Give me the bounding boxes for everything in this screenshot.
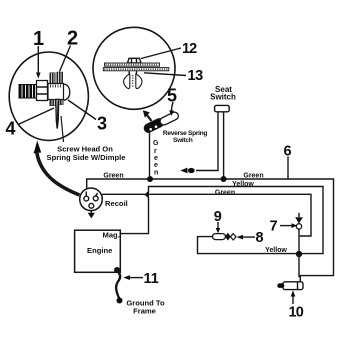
- label 8 leader: [237, 235, 255, 240]
- svg-text:Recoil: Recoil: [105, 199, 128, 208]
- svg-text:4: 4: [6, 119, 16, 139]
- label 1 arrow: [36, 46, 41, 79]
- label 5 arrow: [169, 102, 174, 116]
- svg-text:Engine: Engine: [87, 246, 112, 255]
- svg-text:Reverse Spring: Reverse Spring: [163, 130, 207, 137]
- svg-text:e: e: [154, 162, 158, 169]
- svg-text:Frame: Frame: [133, 307, 156, 316]
- upper plate bar: [105, 63, 160, 66]
- svg-text:e: e: [154, 155, 158, 162]
- label 13 leader: [144, 73, 186, 76]
- svg-text:13: 13: [188, 68, 204, 84]
- wire: reverse switch down to green junction: [149, 132, 151, 177]
- fuse assembly items 8 9: [213, 233, 237, 241]
- plug body: [48, 84, 64, 100]
- spring top coils: [50, 72, 64, 84]
- green vertical letters: [153, 140, 159, 177]
- detail circle top (bolt and clip detail): [93, 27, 175, 109]
- svg-text:Switch: Switch: [210, 93, 236, 102]
- label 6 leader: [287, 157, 289, 179]
- label 3 leader: [68, 100, 96, 120]
- engine box: [75, 230, 121, 272]
- seat switch symbol: [215, 105, 230, 111]
- label 12 leader: [141, 48, 181, 59]
- recoil connector: [80, 188, 103, 211]
- svg-text:7: 7: [270, 219, 278, 235]
- svg-text:9: 9: [214, 209, 222, 225]
- screw pin: [56, 100, 59, 129]
- svg-text:Green: Green: [103, 173, 123, 180]
- wire junction down to item 10: [299, 254, 300, 277]
- hex nut: [37, 81, 48, 101]
- item 7 connector: [295, 213, 303, 254]
- svg-text:11: 11: [144, 271, 159, 287]
- svg-text:Switch: Switch: [173, 137, 193, 144]
- svg-text:Yellow: Yellow: [265, 247, 287, 254]
- wire W2 yellow: engine mag wire across and down right side: [120, 187, 323, 254]
- svg-text:Spring Side W/Dimple: Spring Side W/Dimple: [47, 153, 126, 162]
- label 4 leader: [18, 108, 54, 125]
- item 10 connector: [277, 282, 303, 290]
- fuse loop wire to yellow junction: [198, 237, 300, 254]
- connector dot and arrow: [188, 168, 195, 173]
- spring bottom coils: [50, 100, 64, 107]
- wire W1 green: recoil top across to right side, down and around to item 10: [87, 179, 334, 282]
- svg-text:12: 12: [182, 41, 197, 57]
- svg-text:Yellow: Yellow: [232, 181, 254, 188]
- engine ground dot: [114, 267, 120, 273]
- ground wavy wire: [116, 271, 120, 298]
- svg-text:8: 8: [256, 230, 264, 246]
- svg-text:1: 1: [33, 28, 44, 50]
- svg-text:Mag.: Mag.: [103, 231, 120, 240]
- spring retainer cap: [64, 84, 70, 100]
- screw text leader: [61, 116, 64, 142]
- screw threads: [19, 84, 38, 99]
- junction dot reverse switch: [147, 176, 153, 182]
- lower plate bar: [103, 68, 169, 71]
- svg-text:2: 2: [67, 28, 78, 50]
- svg-text:G: G: [153, 140, 159, 147]
- svg-text:6: 6: [284, 144, 292, 160]
- seat switch right lead: [223, 112, 225, 179]
- hex bolt head: [128, 58, 142, 63]
- label 7 leader: [280, 223, 297, 228]
- svg-text:10: 10: [289, 304, 304, 320]
- seat switch left lead: [196, 112, 218, 170]
- svg-text:Green: Green: [215, 190, 235, 197]
- arrow from switch to top detail circle: [143, 110, 152, 121]
- junction dot seat switch: [221, 176, 227, 182]
- svg-text:r: r: [154, 148, 157, 155]
- number labels: [6, 28, 304, 321]
- label 11 leader: [123, 275, 143, 280]
- svg-text:3: 3: [97, 114, 107, 134]
- svg-text:Green: Green: [243, 173, 263, 180]
- svg-text:5: 5: [167, 86, 177, 106]
- detail circle left (recoil screw detail): [9, 52, 88, 140]
- svg-text:n: n: [154, 170, 158, 177]
- label 9 arrow: [216, 222, 221, 233]
- recoil ground arrow: [88, 211, 95, 219]
- arrowhead on green wire: [144, 192, 149, 198]
- yellow junction dot: [296, 251, 302, 257]
- wire W3 green: recoil to right, wraps to item 7: [97, 194, 312, 236]
- reverse spring switch symbol: [143, 111, 180, 134]
- push clip: [124, 71, 142, 89]
- thick arrow from recoil to left detail circle: [34, 141, 80, 196]
- label 10 leader: [291, 290, 296, 304]
- label 2 leader: [60, 46, 71, 72]
